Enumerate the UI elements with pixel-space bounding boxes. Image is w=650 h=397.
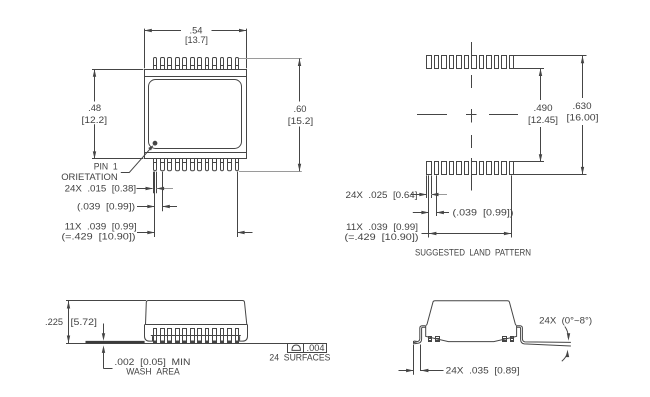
- pin 12 center extension line: [237, 172, 239, 237]
- lead angle annotation 24X (0°~8°): [539, 315, 592, 361]
- top pin row (12 leads): [154, 58, 239, 70]
- svg-text:24X .025 [0.64]: 24X .025 [0.64]: [346, 190, 418, 201]
- pad pitch dimension (.039 [0.99]): [413, 208, 514, 219]
- pad 12 center extension line: [511, 175, 513, 237]
- dimension .54 [13.7]: [144, 25, 246, 68]
- dimension .490 [12.45]: [514, 69, 560, 162]
- svg-text:(.039 [0.99]): (.039 [0.99]): [77, 202, 135, 213]
- wash area thick line: [86, 341, 145, 343]
- svg-text:[13.7]: [13.7]: [185, 35, 208, 46]
- svg-text:PIN 1: PIN 1: [94, 162, 118, 173]
- svg-text:.490: .490: [534, 103, 553, 114]
- svg-text:24X .035 [0.89]: 24X .035 [0.89]: [446, 366, 520, 377]
- svg-text:.48: .48: [88, 103, 101, 114]
- pad 1 edge and center extension lines: [427, 175, 437, 237]
- bottom pin row (12 leads): [154, 159, 239, 171]
- svg-text:[12.2]: [12.2]: [82, 115, 108, 126]
- svg-text:.225: .225: [45, 317, 63, 328]
- pin 1 index dot: [153, 141, 158, 146]
- end view left lead: [414, 326, 426, 344]
- svg-text:[5.72]: [5.72]: [71, 317, 98, 328]
- pin 1 edge and center extension lines: [154, 172, 163, 237]
- land pattern vertical centerline: [471, 42, 473, 191]
- dimension .630 [16.00]: [514, 56, 601, 175]
- pin width dimension 24X .015 [0.38]: [65, 183, 173, 194]
- svg-text:[16.00]: [16.00]: [567, 113, 599, 124]
- pad span dimension 11X .039 [0.99] (=.429 [10.90]): [345, 222, 512, 243]
- seating plane line: [66, 343, 288, 345]
- svg-text:ORIETATION: ORIETATION: [61, 172, 118, 183]
- svg-text:(=.429 [10.90]): (=.429 [10.90]): [345, 232, 419, 243]
- svg-text:WASH AREA: WASH AREA: [126, 367, 180, 378]
- svg-text:[15.2]: [15.2]: [288, 116, 314, 127]
- svg-text:(.039 [0.99]): (.039 [0.99]): [453, 208, 514, 219]
- svg-text:SUGGESTED LAND PATTERN: SUGGESTED LAND PATTERN: [415, 247, 531, 258]
- package inner rounded face: [149, 80, 242, 149]
- svg-text:24X .015 [0.38]: 24X .015 [0.38]: [65, 183, 137, 194]
- flatness feature control frame .004: [288, 343, 327, 354]
- pin 1 leader line: [121, 145, 154, 173]
- side view pin row (12 leads with feet): [154, 329, 239, 344]
- svg-text:(=.429 [10.90]): (=.429 [10.90]): [62, 231, 136, 242]
- dimension .48 [12.2]: [82, 69, 144, 159]
- end view back-row pins: [429, 337, 514, 342]
- pin pitch dimension (.039 [0.99]): [77, 202, 177, 213]
- svg-text:24 SURFACES: 24 SURFACES: [269, 353, 330, 364]
- dimension .60 [15.2]: [239, 59, 313, 172]
- bottom pad row (12 pads): [427, 162, 514, 175]
- land pattern horizontal centerline: [417, 114, 518, 116]
- pad width dimension 24X .025 [0.64]: [346, 190, 448, 201]
- wash area dimension .002 [0.05] MIN: [102, 324, 191, 378]
- label PIN 1 ORIETATION: [61, 162, 118, 183]
- pin span dimension 11X .039 [0.99] (=.429 [10.90]): [62, 222, 253, 243]
- end view package body: [426, 301, 517, 342]
- lead width dimension 24X .035 [0.89]: [399, 345, 520, 377]
- svg-text:24X (0°~8°): 24X (0°~8°): [539, 315, 592, 326]
- svg-text:[12.45]: [12.45]: [528, 115, 558, 126]
- package body outline (top view): [144, 70, 246, 159]
- end view right lead: [517, 326, 571, 346]
- top pad row (12 pads): [427, 56, 514, 69]
- svg-text:.60: .60: [294, 104, 307, 115]
- svg-text:.630: .630: [573, 101, 592, 112]
- side view package body: [145, 301, 248, 342]
- dimension .225 [5.72]: [45, 300, 146, 343]
